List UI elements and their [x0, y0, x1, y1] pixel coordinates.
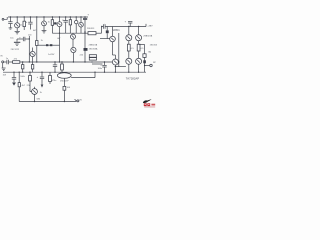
wire bias	[38, 44, 46, 46]
capacitor C3	[64, 17, 68, 33]
ground	[42, 31, 47, 34]
capacitor C9 above rail	[125, 21, 133, 27]
svg-text:100u: 100u	[98, 68, 102, 70]
transistor Q11 driver	[112, 55, 118, 72]
resistor R5	[61, 61, 64, 72]
capacitor C6	[53, 61, 57, 72]
transistor Q5	[30, 48, 35, 73]
wire ground rail low	[19, 101, 76, 103]
capacitor C2	[26, 17, 37, 36]
wire	[4, 61, 7, 63]
diode D2	[84, 31, 99, 62]
diode D1	[46, 44, 48, 46]
resistor R15	[143, 54, 146, 58]
transistor Q8	[136, 27, 142, 45]
wire	[9, 61, 13, 63]
resistor R9 emitter	[137, 44, 144, 58]
wire	[63, 90, 65, 101]
transistor Q10	[136, 58, 142, 72]
transistor Q14	[29, 84, 42, 103]
wire bottom rail	[3, 71, 146, 73]
transistor Q4	[79, 17, 84, 33]
wire output	[145, 65, 150, 67]
diode D3	[143, 60, 146, 63]
wire top rail	[8, 16, 88, 18]
wire	[52, 44, 59, 46]
svg-text:1u/25V: 1u/25V	[48, 54, 55, 56]
wire tick end	[145, 24, 147, 27]
transistor Q1	[15, 17, 23, 31]
resistor R3	[69, 17, 71, 33]
logo red text	[144, 103, 155, 107]
capacitor C10	[98, 61, 107, 72]
wire arrow	[75, 99, 77, 101]
svg-text:22k: 22k	[27, 85, 30, 87]
capacitor C8 series	[104, 24, 107, 29]
svg-text:2SB507A: 2SB507A	[89, 43, 98, 46]
wire jog	[92, 63, 103, 65]
capacitor C7 series input	[6, 58, 9, 64]
svg-text:1k: 1k	[40, 92, 42, 94]
capacitor C1	[8, 17, 12, 29]
diode D6	[54, 22, 57, 24]
resistor R16	[63, 86, 66, 90]
svg-text:470u: 470u	[52, 80, 56, 82]
svg-text:1k: 1k	[48, 22, 50, 24]
diode D4	[50, 44, 53, 46]
svg-text:100k: 100k	[20, 76, 24, 78]
wire top right rail	[102, 26, 104, 28]
capacitor C11	[12, 72, 16, 82]
svg-text:8Ω: 8Ω	[148, 52, 151, 54]
diode D5 drop	[75, 16, 78, 33]
resistor R7	[88, 27, 102, 35]
resistor R10 series	[13, 58, 20, 63]
wire	[4, 17, 7, 19]
transistor Q13	[71, 33, 76, 47]
transistor Q9	[126, 58, 132, 72]
svg-text:2SD313: 2SD313	[150, 44, 158, 46]
ground	[12, 83, 16, 86]
wire node column	[28, 36, 30, 62]
resistor R12 small stacked	[80, 55, 97, 61]
potentiometer VR502	[106, 27, 121, 39]
ground	[14, 39, 20, 45]
svg-text:VR501: VR501	[113, 30, 121, 32]
svg-text:1u: 1u	[6, 58, 8, 60]
resistor R17	[18, 83, 20, 87]
transistor Q7	[126, 27, 132, 45]
node dots bottom	[13, 72, 139, 73]
wire	[48, 44, 49, 46]
svg-text:2SD313A: 2SD313A	[89, 47, 98, 50]
node dots bus	[59, 33, 86, 34]
svg-text:1k: 1k	[41, 40, 43, 42]
resistor R1	[23, 17, 26, 30]
svg-text:47k: 47k	[14, 58, 17, 60]
transistor Q6	[71, 47, 76, 62]
resistor R4	[36, 16, 43, 62]
capacitor C5 electrolytic	[17, 36, 29, 41]
wire output column	[139, 45, 146, 73]
input terminal	[2, 61, 4, 63]
svg-text:2SD313: 2SD313	[87, 28, 95, 30]
ground	[2, 68, 6, 71]
transformer TH1 oval	[57, 72, 71, 82]
svg-text:1k: 1k	[20, 24, 22, 26]
resistor R2	[51, 17, 53, 33]
svg-text:+38V: +38V	[147, 26, 153, 28]
wire column	[59, 33, 60, 63]
wire feedback column	[118, 33, 120, 67]
resistor R8 emitter	[127, 44, 134, 58]
transistor Q3	[57, 17, 64, 33]
wire	[71, 72, 95, 77]
output terminal	[150, 64, 152, 66]
svg-text:2SC1222: 2SC1222	[11, 49, 20, 51]
input terminal left top	[2, 18, 4, 20]
svg-text:2SB507A: 2SB507A	[143, 35, 152, 38]
logo swoosh	[143, 99, 152, 103]
transistor Q2	[42, 17, 47, 31]
node dots top rail	[10, 16, 86, 17]
wire gnd lead	[2, 63, 4, 68]
arrow down	[41, 85, 44, 88]
capacitor C4	[83, 13, 89, 62]
wire dome drop	[63, 78, 65, 86]
wire base bus lower	[115, 66, 126, 67]
ground	[15, 31, 20, 34]
wire	[105, 26, 146, 28]
resistor R11	[22, 61, 24, 72]
svg-text:TA7282AP: TA7282AP	[126, 76, 139, 80]
wire signal path	[20, 61, 113, 63]
transistor Q12 predriver	[100, 27, 115, 56]
resistor R13	[27, 72, 32, 87]
wire left leg	[18, 72, 20, 101]
capacitor C12 electrolytic	[37, 72, 45, 84]
resistor R14	[49, 72, 57, 84]
wire bus	[52, 32, 88, 34]
svg-text:10u: 10u	[10, 38, 13, 40]
terminal 0V	[77, 100, 79, 102]
